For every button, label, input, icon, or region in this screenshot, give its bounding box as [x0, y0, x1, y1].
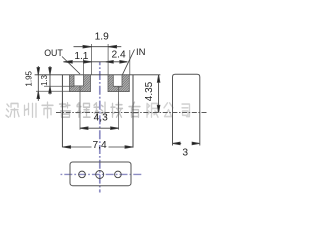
- svg-text:1.95: 1.95: [25, 70, 34, 86]
- svg-text:1.9: 1.9: [95, 32, 109, 43]
- svg-text:IN: IN: [136, 47, 146, 58]
- svg-text:4.35: 4.35: [144, 81, 155, 101]
- svg-text:1.1: 1.1: [74, 51, 88, 62]
- svg-text:3: 3: [182, 147, 188, 158]
- svg-text:OUT: OUT: [44, 48, 63, 58]
- svg-text:4,3: 4,3: [94, 112, 108, 123]
- svg-text:1.3: 1.3: [40, 75, 49, 86]
- svg-text:7,4: 7,4: [93, 140, 107, 151]
- svg-text:2.4: 2.4: [112, 49, 126, 60]
